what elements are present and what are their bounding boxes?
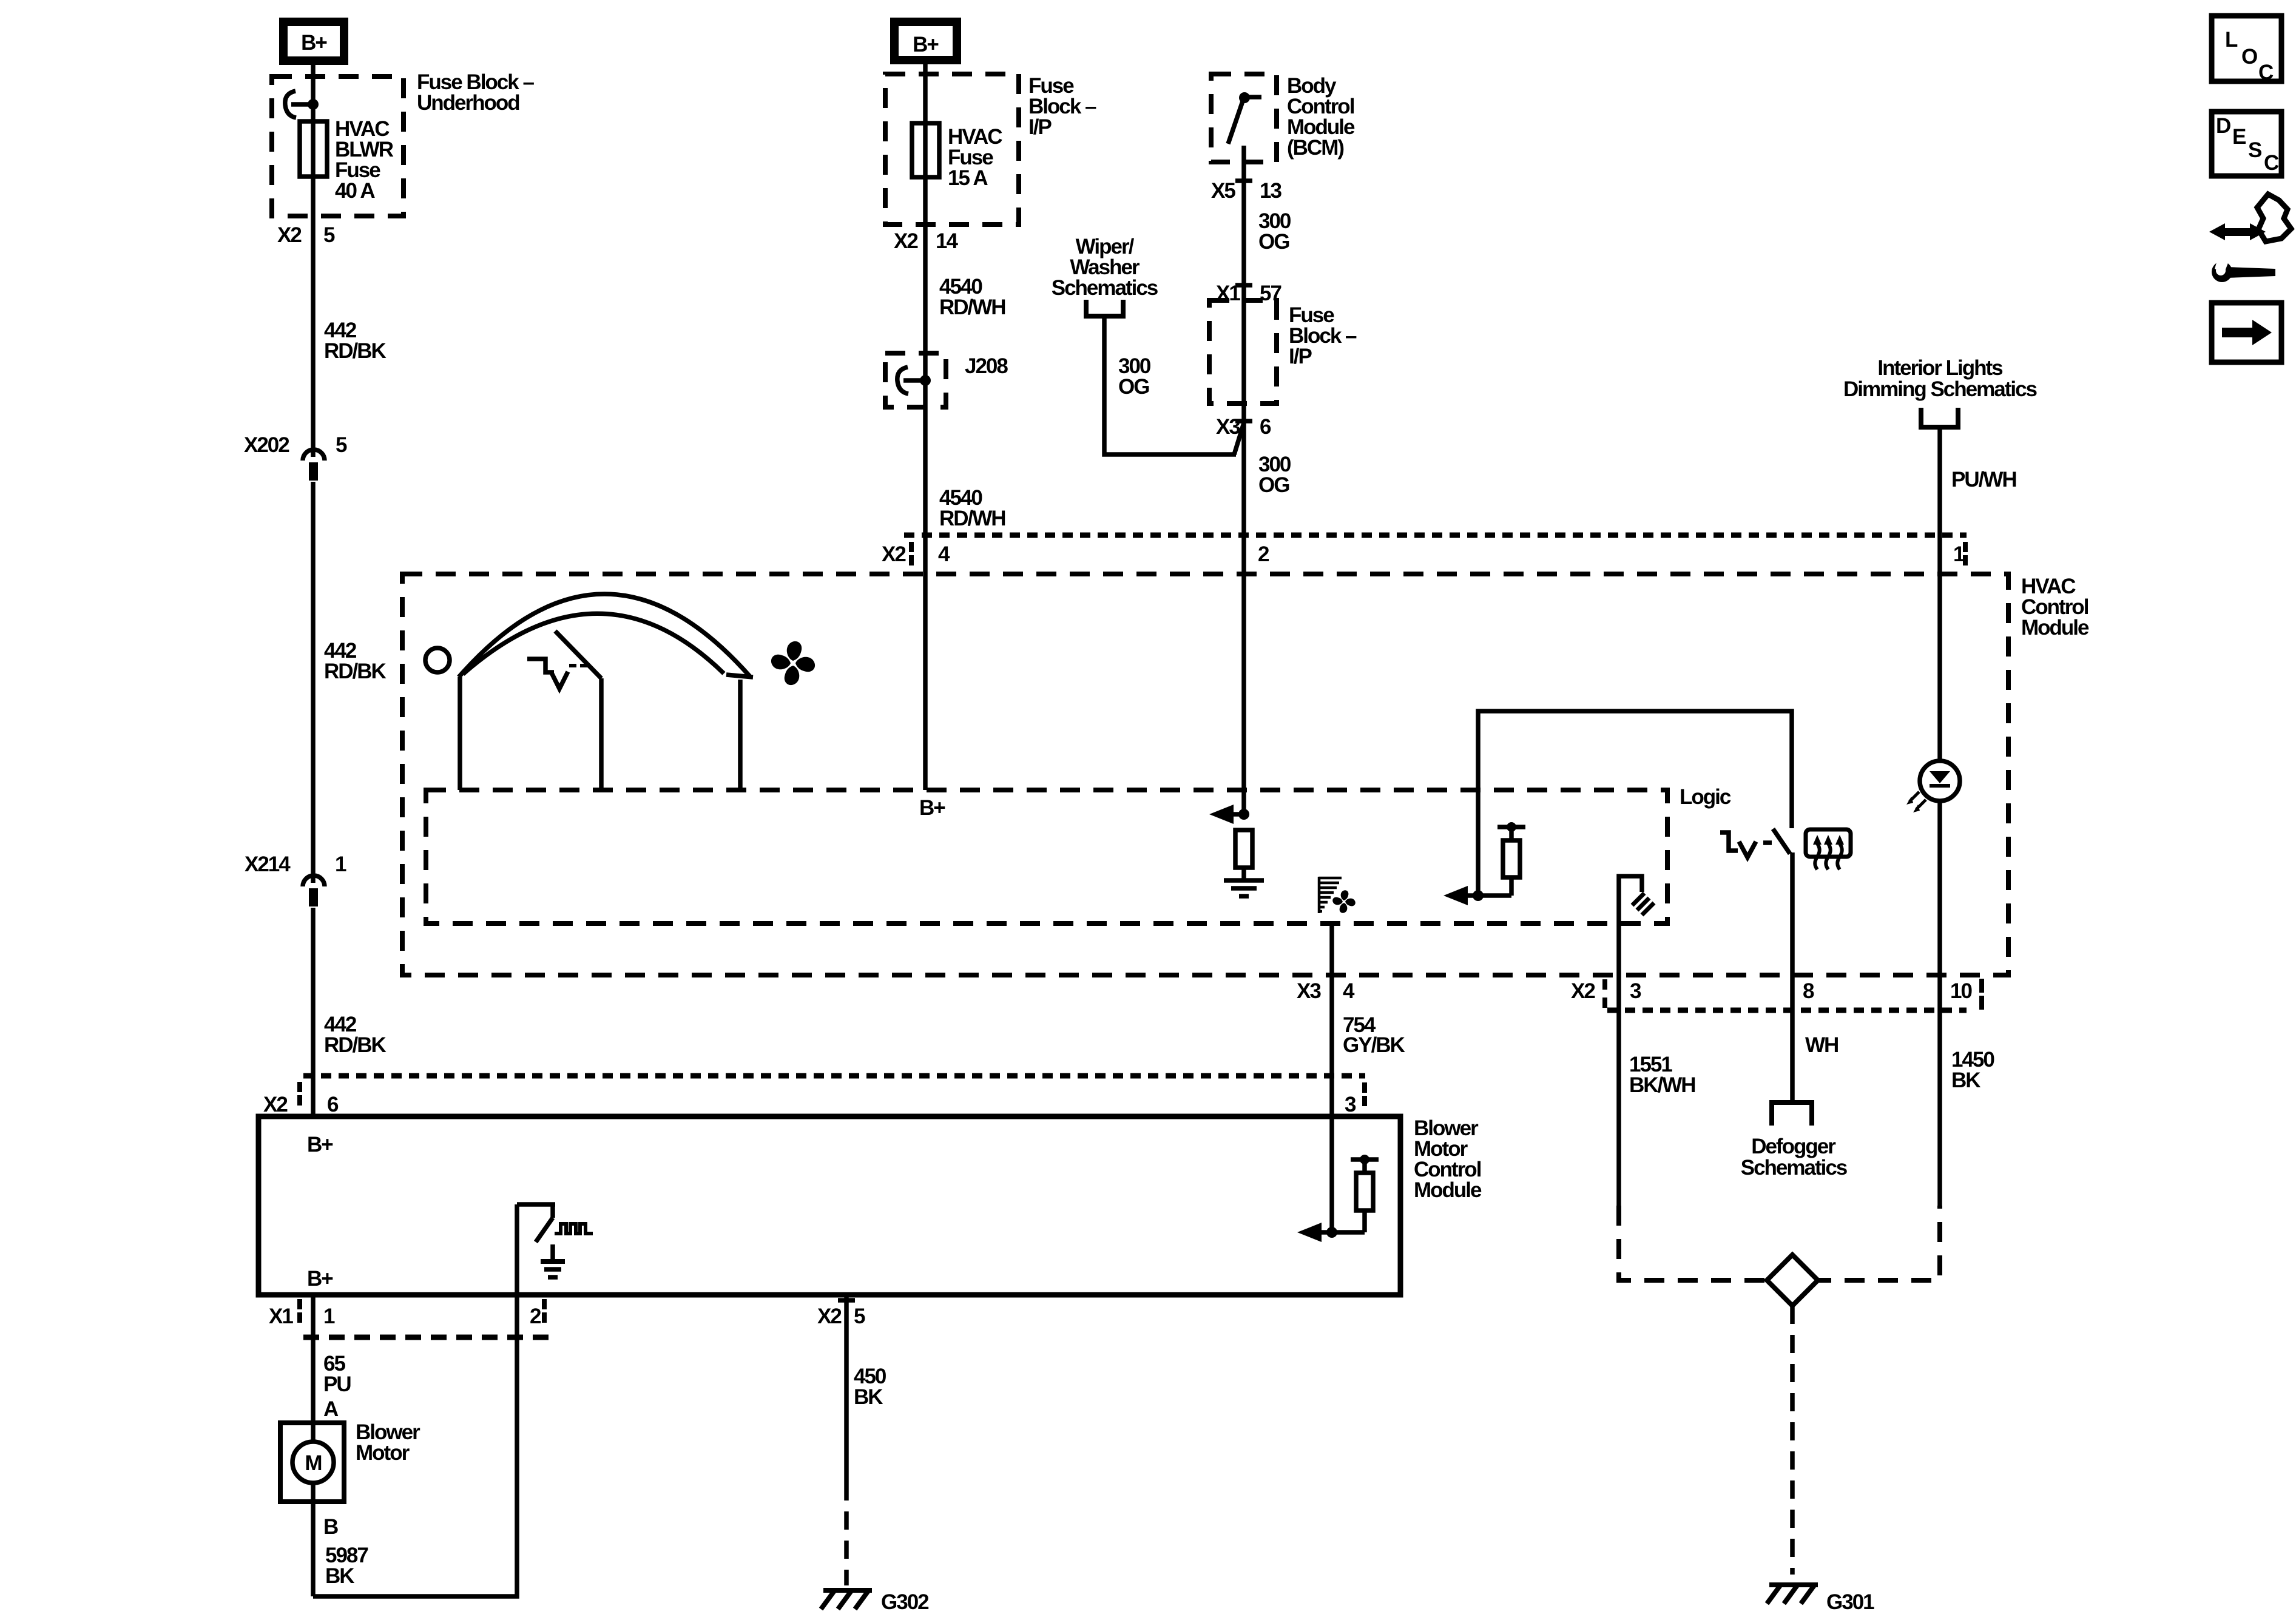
svg-text:O: O: [2241, 45, 2257, 69]
svg-text:G301: G301: [1826, 1590, 1874, 1614]
svg-text:E: E: [2232, 125, 2246, 149]
svg-text:RD/BK: RD/BK: [324, 339, 387, 363]
svg-text:40 A: 40 A: [335, 179, 375, 203]
svg-text:OG: OG: [1258, 473, 1289, 497]
svg-text:5: 5: [323, 223, 335, 247]
svg-text:GY/BK: GY/BK: [1343, 1033, 1405, 1057]
svg-text:WH: WH: [1805, 1033, 1838, 1057]
svg-text:B+: B+: [307, 1133, 333, 1156]
svg-text:B+: B+: [913, 33, 939, 56]
svg-text:G302: G302: [881, 1590, 929, 1614]
svg-text:RD/BK: RD/BK: [324, 660, 387, 683]
svg-text:3: 3: [1630, 979, 1641, 1003]
svg-text:S: S: [2248, 138, 2261, 162]
svg-text:Module: Module: [1414, 1178, 1482, 1202]
svg-text:I/P: I/P: [1028, 115, 1052, 139]
svg-text:X214: X214: [245, 852, 291, 876]
svg-text:C: C: [2264, 151, 2279, 175]
svg-text:X202: X202: [244, 433, 289, 457]
svg-text:X2: X2: [1571, 979, 1595, 1003]
svg-text:B: B: [323, 1515, 338, 1539]
svg-text:Schematics: Schematics: [1052, 276, 1158, 300]
svg-text:4: 4: [1343, 979, 1355, 1003]
svg-text:8: 8: [1803, 979, 1814, 1003]
svg-text:X5: X5: [1211, 179, 1235, 203]
svg-text:6: 6: [1260, 415, 1271, 439]
svg-text:Dimming Schematics: Dimming Schematics: [1843, 377, 2038, 401]
svg-text:2: 2: [530, 1305, 541, 1328]
svg-text:RD/WH: RD/WH: [939, 295, 1005, 319]
svg-text:X1: X1: [269, 1305, 293, 1328]
svg-text:X2: X2: [882, 542, 906, 566]
svg-text:4: 4: [938, 542, 950, 566]
svg-text:BK: BK: [325, 1564, 354, 1588]
svg-text:6: 6: [327, 1093, 339, 1116]
svg-text:RD/WH: RD/WH: [939, 507, 1005, 530]
svg-text:BK: BK: [854, 1385, 883, 1409]
svg-text:X2: X2: [817, 1305, 842, 1328]
svg-text:Interior Lights: Interior Lights: [1877, 356, 2003, 380]
svg-text:A: A: [323, 1397, 339, 1421]
svg-text:Logic: Logic: [1680, 785, 1731, 809]
svg-text:PU/WH: PU/WH: [1951, 468, 2016, 491]
svg-text:BK: BK: [1951, 1068, 1980, 1092]
svg-text:X3: X3: [1297, 979, 1321, 1003]
svg-text:3: 3: [1345, 1093, 1356, 1116]
svg-text:D: D: [2216, 114, 2230, 138]
svg-text:OG: OG: [1258, 230, 1289, 254]
svg-text:15 A: 15 A: [948, 166, 988, 190]
svg-text:L: L: [2225, 28, 2238, 52]
svg-text:B+: B+: [307, 1267, 333, 1291]
svg-text:B+: B+: [301, 31, 327, 55]
svg-text:I/P: I/P: [1289, 345, 1312, 368]
svg-text:10: 10: [1950, 979, 1972, 1003]
svg-text:C: C: [2258, 61, 2274, 84]
svg-text:OG: OG: [1118, 375, 1149, 399]
svg-text:5: 5: [336, 433, 347, 457]
svg-text:J208: J208: [965, 354, 1008, 378]
svg-text:Motor: Motor: [356, 1441, 410, 1465]
svg-text:1: 1: [323, 1305, 335, 1328]
svg-text:5: 5: [854, 1305, 865, 1328]
svg-text:2: 2: [1258, 542, 1269, 566]
svg-text:M: M: [305, 1451, 321, 1475]
svg-text:X2: X2: [263, 1093, 288, 1116]
svg-text:1: 1: [335, 852, 346, 876]
svg-text:X3: X3: [1216, 415, 1240, 439]
svg-text:13: 13: [1260, 179, 1281, 203]
svg-text:1: 1: [1953, 542, 1965, 566]
svg-text:RD/BK: RD/BK: [324, 1033, 387, 1057]
svg-text:BK/WH: BK/WH: [1629, 1073, 1695, 1097]
svg-text:X2: X2: [894, 229, 918, 253]
svg-text:X2: X2: [277, 223, 302, 247]
svg-text:PU: PU: [323, 1372, 351, 1396]
svg-text:(BCM): (BCM): [1287, 136, 1343, 160]
svg-text:Underhood: Underhood: [417, 91, 519, 115]
svg-text:Schematics: Schematics: [1741, 1156, 1848, 1180]
svg-text:57: 57: [1260, 282, 1281, 305]
svg-text:Defogger: Defogger: [1751, 1135, 1836, 1158]
svg-text:X1: X1: [1216, 282, 1240, 305]
svg-text:Module: Module: [2021, 616, 2089, 640]
svg-text:14: 14: [936, 229, 958, 253]
svg-text:B+: B+: [919, 796, 945, 820]
